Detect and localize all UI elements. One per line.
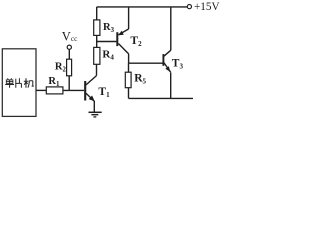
transistor T3 base bar (162, 54, 164, 66)
wire: junction to T2 base (97, 41, 117, 43)
T1 collector (86, 64, 97, 85)
svg-text:R3: R3 (103, 22, 115, 34)
T3 emitter arrow (165, 66, 170, 72)
T3 collector (164, 7, 171, 56)
wire: rail to R3 (96, 7, 98, 20)
wire: R3 to R4 (96, 35, 98, 47)
top rail +15V (97, 6, 188, 8)
T1 emitter arrow (89, 96, 95, 102)
resistor R2 (67, 59, 72, 76)
char 单 (5, 78, 14, 88)
svg-text:R4: R4 (102, 49, 114, 62)
wire: R1 to T1 base (63, 89, 84, 91)
resistor R3 (94, 20, 100, 36)
svg-text:Vcc: Vcc (62, 30, 78, 44)
char 片 (16, 78, 22, 88)
svg-text:T2: T2 (130, 35, 142, 48)
svg-text:+15V: +15V (194, 1, 220, 13)
T2 emitter (top, PNP) (118, 7, 128, 35)
transistor T2 base bar (116, 32, 118, 46)
transistor T1 base bar (84, 81, 86, 101)
Vcc terminal circle (67, 45, 71, 49)
+15V terminal circle (187, 5, 191, 9)
T1 emitter (86, 93, 94, 101)
MCU box 单片机 (2, 49, 36, 117)
wire: R2 to base line (68, 76, 70, 91)
svg-text:R5: R5 (134, 73, 146, 86)
resistor R5 (125, 72, 131, 88)
wire: Vcc to R2 (68, 50, 70, 60)
wire: T1 emitter to ground (93, 101, 95, 112)
wire: T3 emitter down (170, 72, 172, 98)
wire: node to R5 (128, 63, 130, 72)
svg-text:R2: R2 (55, 61, 67, 73)
T2 emitter arrow (points to bar) (119, 31, 124, 35)
wire: MCU to R1 (base line left) (36, 89, 47, 91)
T3 emitter (164, 63, 171, 73)
char 机 (24, 78, 34, 88)
svg-text:T1: T1 (98, 86, 110, 99)
node line: T2 collector to T3 base (129, 62, 163, 64)
resistor R4 (94, 47, 100, 64)
bottom wire (129, 97, 194, 99)
svg-text:T3: T3 (172, 57, 184, 70)
ground (89, 111, 102, 113)
MCU label 单片机 (drawn strokes) (5, 78, 34, 88)
wire: R5 to bottom line (128, 88, 130, 99)
T2 collector (118, 44, 128, 64)
resistor R1 (46, 87, 63, 94)
svg-text:R1: R1 (48, 76, 60, 88)
